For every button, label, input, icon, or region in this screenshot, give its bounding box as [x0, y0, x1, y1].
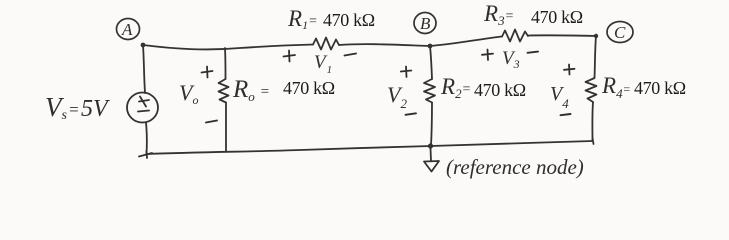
- label V1 minus: [345, 54, 357, 56]
- resistor R2 branch wire top: [430, 46, 432, 79]
- svg-text:470 kΩ: 470 kΩ: [634, 78, 686, 98]
- wire source to bottom corner: [145, 123, 148, 154]
- label V3 plus: [482, 50, 493, 61]
- svg-text:470 kΩ: 470 kΩ: [531, 7, 583, 27]
- svg-text:470 kΩ: 470 kΩ: [323, 10, 375, 30]
- svg-text:C: C: [614, 23, 626, 42]
- label V4 plus: [564, 65, 575, 75]
- resistor R2: [424, 79, 435, 103]
- junction dot node A: [141, 43, 146, 48]
- wire R3 to C: [528, 34, 596, 37]
- node C circle: [607, 22, 633, 43]
- label V2 minus: [406, 113, 417, 115]
- svg-text:470 kΩ: 470 kΩ: [474, 80, 526, 100]
- label V0 plus: [202, 67, 213, 78]
- resistor R4 branch wire top: [595, 36, 597, 78]
- label V4 minus: [561, 114, 571, 115]
- ground stem: [430, 148, 433, 161]
- wire bottom-left overshoot tail: [139, 151, 152, 158]
- resistor R0 branch wire bottom: [225, 103, 227, 152]
- node A circle: [117, 19, 140, 40]
- wire B to R3: [430, 37, 502, 47]
- label V2 plus: [401, 67, 412, 78]
- wire bottom left to B: [147, 146, 432, 154]
- wire bottom B to right corner: [431, 141, 593, 146]
- svg-text:(reference node): (reference node): [446, 155, 584, 179]
- resistor R4 branch wire bottom: [591, 102, 594, 141]
- wire bottom-right tick: [593, 138, 594, 144]
- label V3 minus: [528, 52, 539, 53]
- label V0 minus: [206, 121, 217, 123]
- wire A down to source: [143, 45, 145, 93]
- resistor R1: [313, 38, 339, 50]
- wire R1 to B: [339, 44, 430, 46]
- voltage source V1 circle: [127, 93, 158, 123]
- resistor R2 branch wire bottom: [431, 103, 432, 147]
- svg-text:B: B: [420, 14, 431, 33]
- resistor R0: [219, 79, 229, 103]
- ground triangle: [424, 161, 439, 172]
- junction dot node B: [428, 44, 433, 49]
- source plus sign: [139, 97, 149, 107]
- resistor R4: [586, 78, 597, 102]
- junction dot node C: [594, 34, 598, 38]
- svg-text:470 kΩ: 470 kΩ: [283, 78, 335, 98]
- resistor R0 branch wire top: [224, 48, 227, 79]
- source minus sign: [138, 111, 149, 112]
- resistor R3: [502, 30, 528, 42]
- label V1 plus: [284, 51, 296, 62]
- junction dot bottom B: [428, 143, 433, 148]
- node B circle: [414, 13, 436, 34]
- svg-text:A: A: [121, 20, 133, 39]
- wire top A to R1: [143, 45, 313, 50]
